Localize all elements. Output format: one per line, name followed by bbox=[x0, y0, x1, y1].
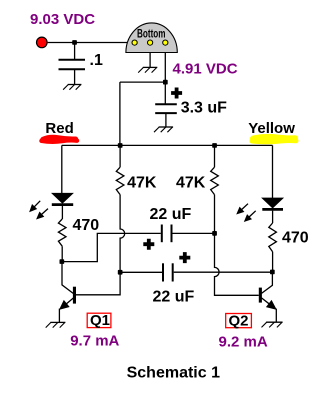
svg-text:22 uF: 22 uF bbox=[153, 288, 195, 305]
capacitor C-in .1 plates bbox=[59, 59, 86, 61]
wire R1 junction to C3 bbox=[120, 271, 162, 273]
node 9.03 VDC input (red terminal) bbox=[37, 37, 48, 48]
plus of C2 bbox=[143, 239, 154, 250]
LED D1 red bbox=[52, 193, 73, 203]
capacitor C1 3.3 uF plates bbox=[155, 103, 177, 105]
plus of C1 bbox=[171, 88, 182, 99]
regulator pin 1 (input) bbox=[132, 40, 137, 45]
wire C-in to ground bbox=[74, 69, 76, 84]
wire R2 from rail bbox=[214, 145, 216, 167]
wire C3 to Q2 collector node bbox=[174, 271, 273, 273]
svg-text:470: 470 bbox=[282, 229, 309, 246]
transistor Q2 bbox=[259, 288, 262, 303]
wire R1 from rail bbox=[119, 145, 121, 167]
wire pin 3 down to output node bbox=[164, 53, 166, 83]
wire R2 down with hop over C3 wire bbox=[215, 195, 259, 296]
svg-text:470: 470 bbox=[73, 217, 100, 234]
light arrows D1 bbox=[34, 201, 40, 207]
svg-text:9.2 mA: 9.2 mA bbox=[219, 334, 268, 351]
wire C2 to R2 junction bbox=[173, 232, 215, 234]
yellow marker scribble bbox=[253, 137, 295, 139]
wire LED1 to R3 bbox=[61, 206, 63, 219]
junction rail/R1 bbox=[118, 143, 123, 148]
svg-text:Q2: Q2 bbox=[229, 313, 249, 330]
capacitor C2 22 uF plates bbox=[161, 225, 163, 243]
regulator pin 2 (ground) bbox=[148, 40, 153, 45]
plus of C3 bbox=[179, 252, 190, 263]
svg-text:Bottom: Bottom bbox=[137, 28, 166, 40]
junction R2/C2 to Q2 base bbox=[212, 231, 217, 236]
wire output node to C1 3.3uF bbox=[164, 82, 166, 104]
junction Q1 collector bbox=[60, 259, 65, 264]
junction R1/C3 to Q1 base bbox=[118, 270, 123, 275]
label Q2 bbox=[226, 314, 252, 328]
svg-text:Red: Red bbox=[45, 120, 73, 137]
wire Q1 collector to C2 bbox=[62, 233, 161, 261]
junction rail/R2 bbox=[212, 143, 217, 148]
wire output node to left drop bbox=[120, 81, 165, 83]
wire R3 to Q1 collector node bbox=[61, 246, 63, 261]
svg-text:Q1: Q1 bbox=[90, 312, 110, 329]
svg-text:.1: .1 bbox=[90, 52, 103, 69]
wire C1 to ground bbox=[165, 113, 167, 127]
wire drop to supply rail bbox=[119, 82, 121, 145]
junction input/C-in bbox=[72, 40, 77, 45]
ground Q1 emitter bbox=[50, 321, 65, 323]
wire pin 2 to ground bbox=[149, 53, 151, 68]
wire R4 to Q2 collector node bbox=[272, 252, 274, 272]
ground under pin 2 bbox=[143, 66, 157, 68]
resistor R1 47K bbox=[116, 167, 124, 194]
svg-text:47K: 47K bbox=[127, 174, 157, 191]
wire LED2 to R4 bbox=[272, 211, 274, 223]
wire junction down to C-in bbox=[74, 43, 76, 60]
wire from 9V input node to regulator pin 1 bbox=[42, 42, 135, 44]
red marker scribble bbox=[43, 138, 76, 140]
svg-text:3.3 uF: 3.3 uF bbox=[181, 100, 227, 117]
resistor R4 470 bbox=[269, 223, 277, 252]
label Q1 bbox=[87, 313, 111, 327]
transistor Q1 bbox=[73, 287, 76, 304]
svg-text:9.7 mA: 9.7 mA bbox=[70, 333, 119, 350]
resistor R2 47K bbox=[211, 167, 219, 194]
light arrows D2 bbox=[242, 204, 248, 210]
svg-text:4.91 VDC: 4.91 VDC bbox=[173, 60, 238, 77]
regulator U1 body (bottom view) bbox=[126, 23, 177, 53]
wire R1 down with hop over C2 wire bbox=[76, 195, 125, 295]
wire rail to LED2 bbox=[272, 145, 274, 198]
resistor R3 470 bbox=[58, 219, 66, 246]
regulator pin 3 (output) bbox=[163, 40, 168, 45]
svg-text:47K: 47K bbox=[176, 174, 206, 191]
svg-text:Schematic 1: Schematic 1 bbox=[127, 364, 220, 381]
capacitor C3 22 uF plates bbox=[162, 263, 164, 281]
LED D2 yellow bbox=[262, 198, 283, 208]
junction Q2 collector bbox=[270, 270, 275, 275]
ground under C-in bbox=[68, 84, 82, 86]
ground under C1 bbox=[159, 126, 173, 128]
svg-text:9.03 VDC: 9.03 VDC bbox=[30, 11, 95, 28]
wire rail to LED1 bbox=[61, 145, 63, 193]
node regulator output junction bbox=[163, 80, 168, 85]
ground Q2 emitter bbox=[266, 321, 282, 323]
svg-text:22 uF: 22 uF bbox=[150, 206, 192, 223]
supply rail 4.91V bbox=[62, 144, 273, 146]
